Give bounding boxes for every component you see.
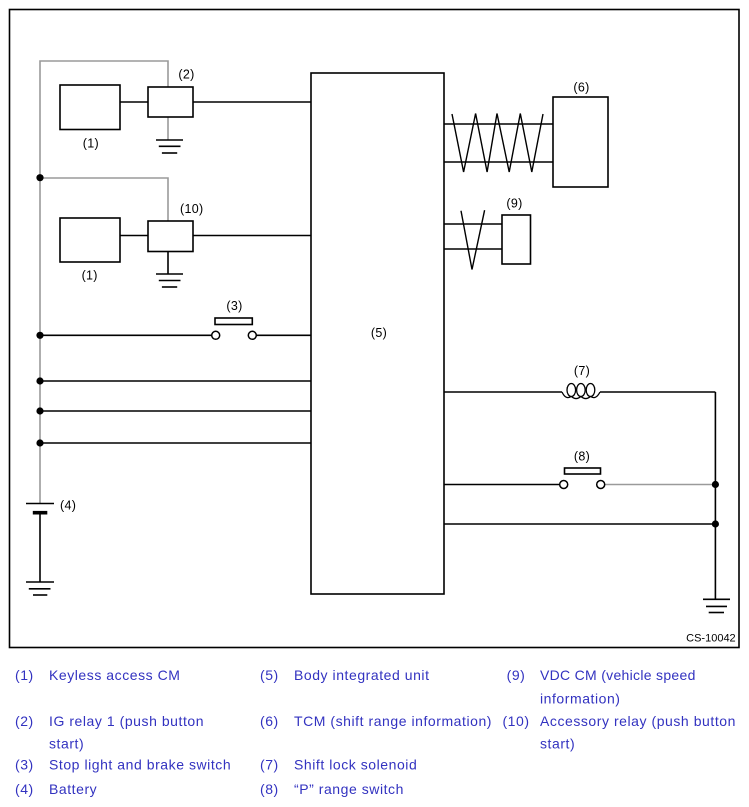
svg-text:Battery: Battery (49, 781, 97, 797)
svg-text:(6): (6) (573, 81, 589, 95)
svg-text:TCM (shift range information): TCM (shift range information) (294, 713, 492, 729)
svg-text:(5): (5) (260, 667, 279, 683)
svg-text:(1): (1) (15, 667, 34, 683)
svg-text:(1): (1) (82, 269, 98, 283)
svg-text:(2): (2) (178, 68, 194, 82)
svg-text:(8): (8) (574, 450, 590, 464)
svg-text:(10): (10) (180, 202, 203, 216)
svg-text:(1): (1) (83, 136, 99, 150)
svg-text:“P” range switch: “P” range switch (294, 781, 404, 797)
svg-text:Body integrated unit: Body integrated unit (294, 667, 430, 683)
svg-text:Keyless access CM: Keyless access CM (49, 667, 181, 683)
svg-text:(10): (10) (502, 713, 529, 729)
svg-text:Shift lock solenoid: Shift lock solenoid (294, 757, 417, 773)
svg-text:Stop light and brake switch: Stop light and brake switch (49, 757, 231, 773)
svg-text:(2): (2) (15, 713, 34, 729)
svg-text:(6): (6) (260, 713, 279, 729)
svg-text:(9): (9) (507, 667, 526, 683)
svg-text:(5): (5) (371, 326, 387, 340)
svg-text:(3): (3) (226, 299, 242, 313)
svg-text:(8): (8) (260, 781, 279, 797)
svg-text:(4): (4) (60, 499, 76, 513)
svg-text:IG relay 1 (push button: IG relay 1 (push button (49, 713, 204, 729)
svg-text:(4): (4) (15, 781, 34, 797)
svg-text:information): information) (540, 691, 621, 707)
svg-text:(3): (3) (15, 757, 34, 773)
svg-text:(9): (9) (506, 197, 522, 211)
svg-text:start): start) (540, 736, 575, 752)
svg-text:CS-10042: CS-10042 (686, 633, 736, 645)
svg-text:Accessory relay (push button: Accessory relay (push button (540, 713, 736, 729)
svg-text:start): start) (49, 736, 84, 752)
svg-text:VDC CM (vehicle speed: VDC CM (vehicle speed (540, 667, 696, 683)
svg-text:(7): (7) (260, 757, 279, 773)
svg-text:(7): (7) (574, 364, 590, 378)
